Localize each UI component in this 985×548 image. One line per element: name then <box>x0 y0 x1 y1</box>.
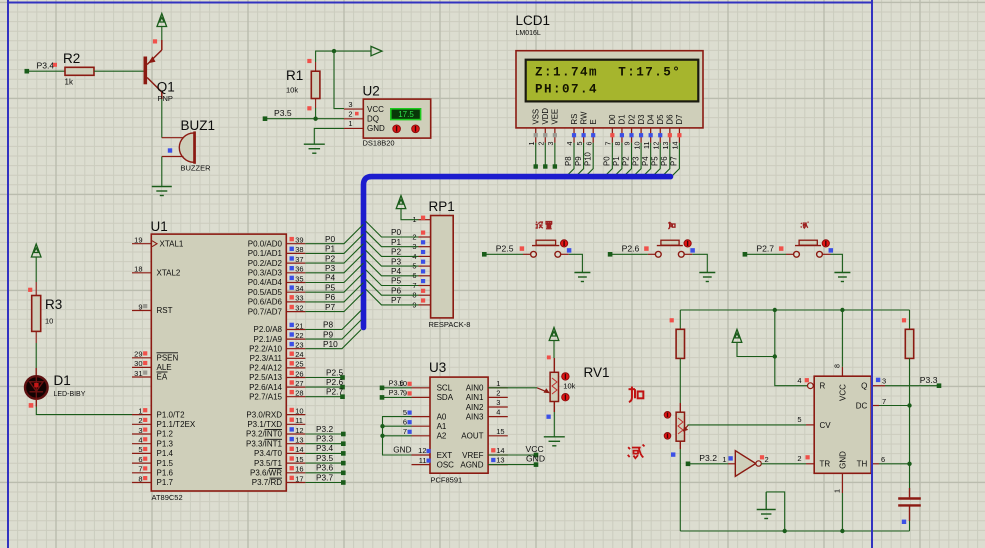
U3 pin 11 OSC <box>412 456 455 470</box>
junction <box>773 354 777 358</box>
svg-text:2: 2 <box>138 416 142 425</box>
svg-text:D6: D6 <box>666 115 675 125</box>
svg-text:37: 37 <box>295 255 303 264</box>
potentiometer RV1 <box>537 355 610 412</box>
wire P5 U1 to bus <box>305 273 363 292</box>
svg-text:VEE: VEE <box>551 109 560 125</box>
svg-text:P2.5: P2.5 <box>496 244 514 254</box>
svg-text:GND: GND <box>526 454 545 464</box>
wire power to Q1 emitter <box>161 27 163 41</box>
power VCC Q1 <box>157 14 167 27</box>
svg-text:39: 39 <box>295 236 303 245</box>
wire Q to P3.3 <box>885 385 937 387</box>
svg-text:A1: A1 <box>437 422 447 431</box>
svg-text:R1: R1 <box>286 68 303 83</box>
svg-text:P0.5/AD5: P0.5/AD5 <box>248 288 283 297</box>
svg-text:P2.1/A9: P2.1/A9 <box>254 335 283 344</box>
svg-text:ALE: ALE <box>157 363 172 372</box>
wire P2 U1 to bus <box>305 244 363 263</box>
U1 pin 21 P2.0/A8 <box>254 321 306 334</box>
wire P4 U1 to bus <box>305 263 363 282</box>
svg-text:P2.2/A10: P2.2/A10 <box>249 344 282 353</box>
power arrow right <box>371 46 382 55</box>
U1 pin 29 PSEN <box>132 350 151 359</box>
svg-text:P4: P4 <box>325 273 336 283</box>
RP1 pin 8 <box>412 289 430 300</box>
ground RV1 <box>544 437 565 446</box>
ground 555 bars <box>757 510 776 519</box>
svg-text:P3.7: P3.7 <box>389 388 404 397</box>
svg-text:RV1: RV1 <box>584 365 610 380</box>
ground 555 <box>765 492 767 510</box>
U3 pin 3 AIN2 <box>466 398 508 412</box>
U1 pin 1 P1.0/T2 <box>132 406 151 415</box>
U3 pin 5 A0 <box>403 408 447 422</box>
U3 pin 15 AOUT <box>461 427 508 441</box>
wire P2.6 to button <box>610 253 648 255</box>
svg-text:P9: P9 <box>323 329 334 339</box>
RP1 pin 3 <box>412 240 430 251</box>
svg-text:P2.7: P2.7 <box>326 387 343 397</box>
wire A0-EXT gnd tie <box>383 417 412 455</box>
LCD pin 6 E <box>583 119 598 177</box>
svg-text:22: 22 <box>295 331 303 340</box>
svg-text:13: 13 <box>295 436 303 445</box>
svg-text:Q1: Q1 <box>157 80 175 95</box>
svg-text:9: 9 <box>623 142 632 146</box>
svg-text:29: 29 <box>134 350 142 359</box>
svg-text:P3.4/T0: P3.4/T0 <box>254 449 283 458</box>
wire 555 GND down <box>841 493 843 531</box>
U1 pin 11 P3.1/TXD <box>247 416 305 429</box>
svg-text:P3.3: P3.3 <box>316 434 333 444</box>
bus P0..P10 <box>364 177 671 328</box>
U3 pin 1 AIN0 <box>466 379 508 393</box>
svg-text:1: 1 <box>496 379 500 388</box>
svg-text:8: 8 <box>138 474 142 483</box>
U1 pin 34 P0.5/AD5 <box>248 284 306 297</box>
wire P3 RP1 to bus <box>366 250 419 266</box>
svg-text:P2: P2 <box>325 253 336 263</box>
svg-text:21: 21 <box>295 321 303 330</box>
svg-text:4: 4 <box>797 376 801 385</box>
svg-text:P1.4: P1.4 <box>157 449 174 458</box>
U1 pin 27 P2.6/A14 <box>249 379 305 392</box>
U1 pin 9 RST <box>132 302 151 311</box>
svg-text:AIN2: AIN2 <box>466 403 484 412</box>
LCD pin 4 RS <box>564 114 579 177</box>
wire P2.6 stub <box>305 386 340 388</box>
U1 pin 13 P3.3/INT1 <box>246 436 305 449</box>
LCD pin 11 D4 <box>641 114 656 177</box>
LCD pin 13 D6 <box>660 115 675 177</box>
svg-text:15: 15 <box>496 427 504 436</box>
svg-text:P3.4: P3.4 <box>37 60 55 70</box>
wire P2.7 to button <box>745 253 786 255</box>
junction <box>380 424 384 428</box>
net P3.3 <box>920 375 942 388</box>
U3 pin 7 A2 <box>403 427 447 441</box>
svg-text:D7: D7 <box>675 115 684 125</box>
wire button to ground <box>692 254 707 272</box>
svg-text:RS: RS <box>570 114 579 125</box>
svg-text:3: 3 <box>882 377 886 386</box>
wire to 555 R <box>775 310 808 386</box>
IC 555 box <box>814 376 871 473</box>
svg-text:28: 28 <box>295 389 303 398</box>
svg-text:AOUT: AOUT <box>461 432 483 441</box>
svg-text:34: 34 <box>295 284 303 293</box>
wire P2 RP1 to bus <box>366 241 419 257</box>
555 pin 7 DC <box>871 397 886 406</box>
svg-text:D0: D0 <box>608 114 617 125</box>
svg-text:R3: R3 <box>45 297 62 312</box>
svg-text:23: 23 <box>295 341 303 350</box>
svg-text:P1.1/T2EX: P1.1/T2EX <box>157 420 196 429</box>
RP1 pin 7 <box>412 279 430 290</box>
wire P7 U1 to bus <box>305 292 363 311</box>
svg-text:P3.5: P3.5 <box>316 453 333 463</box>
svg-text:3: 3 <box>348 100 352 109</box>
svg-text:P3.6/WR: P3.6/WR <box>250 469 282 478</box>
svg-text:AIN3: AIN3 <box>466 412 484 421</box>
svg-text:P3: P3 <box>391 256 402 266</box>
svg-text:P1.0/T2: P1.0/T2 <box>157 410 186 419</box>
net P3.2 <box>686 453 717 466</box>
svg-text:GND: GND <box>367 124 385 133</box>
wire U2 GND down <box>314 128 344 144</box>
node P3.4 <box>25 60 58 73</box>
wire P4 RP1 to bus <box>366 260 419 276</box>
wire R1 bottom <box>315 108 317 119</box>
svg-text:P5: P5 <box>650 156 659 166</box>
svg-text:P1.2: P1.2 <box>157 430 174 439</box>
wire left rail bottom <box>679 449 681 531</box>
svg-text:D3: D3 <box>637 115 646 125</box>
marker <box>671 452 675 456</box>
wire NOT out to TR <box>761 463 806 465</box>
svg-text:P2: P2 <box>622 156 631 166</box>
resistor pack RP1 <box>429 199 471 329</box>
svg-text:P1: P1 <box>325 244 336 254</box>
wire P3.5 stub <box>305 462 341 464</box>
power VCC 555 <box>732 329 742 342</box>
svg-text:P2.4/A12: P2.4/A12 <box>249 364 282 373</box>
svg-text:1: 1 <box>348 119 352 128</box>
svg-text:15: 15 <box>295 455 303 464</box>
net VCC <box>491 444 544 457</box>
LCD LM016L body <box>516 51 703 128</box>
svg-text:4: 4 <box>138 436 142 445</box>
svg-text:T:17.5°: T:17.5° <box>618 66 681 80</box>
potentiometer left <box>664 403 688 449</box>
wire Q1 collector to BUZ1 <box>161 99 163 138</box>
U1 pin 22 P2.1/A9 <box>254 331 306 344</box>
RP1 pin 2 <box>412 231 430 242</box>
svg-text:EA: EA <box>157 373 168 382</box>
svg-text:P3.3: P3.3 <box>920 375 938 385</box>
resistor left <box>670 318 685 358</box>
ground BUZ1 <box>152 187 172 196</box>
svg-text:2: 2 <box>797 454 801 463</box>
wire P6 RP1 to bus <box>366 279 419 295</box>
svg-text:6: 6 <box>881 455 885 464</box>
svg-text:38: 38 <box>295 245 303 254</box>
svg-text:VDD: VDD <box>541 108 550 125</box>
svg-text:P3.2: P3.2 <box>316 424 333 434</box>
svg-text:16: 16 <box>295 465 303 474</box>
svg-text:12: 12 <box>418 446 426 455</box>
svg-text:SCL: SCL <box>437 384 453 393</box>
svg-text:D5: D5 <box>656 114 665 125</box>
svg-text:E: E <box>589 119 598 124</box>
svg-text:17.5: 17.5 <box>398 110 414 119</box>
svg-text:P3.5: P3.5 <box>274 108 292 118</box>
svg-text:DS18B20: DS18B20 <box>363 138 395 147</box>
svg-text:VCC: VCC <box>839 384 848 401</box>
svg-text:11: 11 <box>419 456 427 465</box>
RP1 pin 5 <box>412 260 430 271</box>
U1 pin 39 P0.0/AD0 <box>248 236 306 249</box>
svg-text:30: 30 <box>134 359 142 368</box>
svg-text:5: 5 <box>138 445 142 454</box>
U3 pin 10 SCL <box>399 379 453 393</box>
svg-text:P2.6/A14: P2.6/A14 <box>249 383 282 392</box>
wire BUZ1 to ground <box>161 157 163 187</box>
svg-text:P0.3/AD3: P0.3/AD3 <box>248 269 283 278</box>
svg-text:14: 14 <box>496 446 504 455</box>
node P2.6 <box>340 385 345 390</box>
svg-text:32: 32 <box>295 303 303 312</box>
svg-text:P6: P6 <box>391 285 402 295</box>
wire P0 RP1 to bus <box>366 221 419 237</box>
svg-text:P10: P10 <box>323 339 338 349</box>
U3 pin 13 AGND <box>460 456 507 470</box>
LCD pin 5 RW <box>574 111 589 177</box>
node P3.5 <box>263 108 292 121</box>
svg-text:TR: TR <box>820 460 831 469</box>
svg-text:P0.0/AD0: P0.0/AD0 <box>248 239 283 248</box>
LCD pin 2 VDD <box>536 108 550 169</box>
resistor R3 <box>32 296 63 332</box>
ground ADD <box>699 273 715 282</box>
U1 pin 25 P2.4/A12 <box>249 360 305 373</box>
wire P3 U1 to bus <box>305 254 363 273</box>
U1 pin 17 P3.7/RD <box>252 474 306 487</box>
U1 pin 8 P1.7 <box>132 474 151 483</box>
svg-text:P3.7: P3.7 <box>316 472 333 482</box>
svg-text:3: 3 <box>546 142 555 146</box>
svg-text:18: 18 <box>134 265 142 274</box>
svg-text:AT89C52: AT89C52 <box>152 493 183 502</box>
power VCC RP1 <box>396 196 406 209</box>
wire R1 top rail <box>316 51 371 62</box>
svg-text:P0.2/AD2: P0.2/AD2 <box>248 259 283 268</box>
svg-text:VREF: VREF <box>462 451 483 460</box>
svg-text:P4: P4 <box>641 156 650 166</box>
svg-text:P1.5: P1.5 <box>157 459 174 468</box>
svg-text:33: 33 <box>295 294 303 303</box>
svg-text:P0: P0 <box>391 227 402 237</box>
U1 pin 10 P3.0/RXD <box>246 406 305 419</box>
wire R3 to D1 <box>35 343 37 368</box>
svg-text:1k: 1k <box>65 78 74 87</box>
svg-text:GND: GND <box>839 451 848 469</box>
svg-text:8: 8 <box>613 142 622 146</box>
U1 pin 18 XTAL2 <box>132 265 151 274</box>
RP1 pin 9 <box>412 298 430 309</box>
LCD pin 14 D7 <box>670 115 685 177</box>
svg-text:GND: GND <box>393 445 411 454</box>
net GND <box>491 454 545 467</box>
wire P8 U1 to bus <box>305 310 361 329</box>
wire P10 U1 to bus <box>305 330 361 349</box>
LCD pin 8 D1 <box>612 115 627 177</box>
svg-text:P3.0/RXD: P3.0/RXD <box>246 410 282 419</box>
U1 pin 16 P3.6/WR <box>250 465 305 478</box>
svg-text:12: 12 <box>295 426 303 435</box>
svg-text:XTAL1: XTAL1 <box>160 239 184 248</box>
U1 pin 3 P1.2 <box>132 426 151 435</box>
U1 pin 24 P2.3/A11 <box>250 350 306 363</box>
svg-text:P0.7/AD7: P0.7/AD7 <box>248 307 283 316</box>
svg-text:P3.4: P3.4 <box>316 443 333 453</box>
svg-text:31: 31 <box>134 369 142 378</box>
svg-text:LM016L: LM016L <box>516 30 541 37</box>
LCD pin 7 D0 <box>603 114 618 177</box>
wire D1 to U1 P1.0 <box>36 407 132 415</box>
wire P2.7 stub <box>305 396 340 398</box>
wire P7 RP1 to bus <box>366 289 419 305</box>
junction <box>332 49 336 53</box>
svg-text:P3.5/T1: P3.5/T1 <box>254 459 283 468</box>
svg-text:U3: U3 <box>429 360 446 375</box>
svg-text:P3.3/INT1: P3.3/INT1 <box>246 439 283 448</box>
U3 pin 6 A1 <box>403 417 447 431</box>
U1 pin 37 P0.2/AD2 <box>248 255 306 268</box>
svg-text:35: 35 <box>295 274 303 283</box>
svg-text:BUZZER: BUZZER <box>181 164 212 173</box>
svg-text:5: 5 <box>797 415 801 424</box>
svg-text:DQ: DQ <box>367 115 379 124</box>
svg-text:P1: P1 <box>391 237 402 247</box>
svg-text:OSC: OSC <box>437 460 455 469</box>
svg-text:3: 3 <box>496 398 500 407</box>
svg-text:P3.2/INT0: P3.2/INT0 <box>246 430 283 439</box>
svg-text:7: 7 <box>882 397 886 406</box>
wire cap to bottom rail <box>909 521 911 531</box>
wire power to RV1 <box>553 341 555 359</box>
wire P3.4 stub <box>305 452 341 454</box>
svg-text:25: 25 <box>295 360 303 369</box>
svg-text:9: 9 <box>138 302 142 311</box>
svg-text:12: 12 <box>651 142 660 150</box>
wire P3.7 stub <box>305 482 341 484</box>
U1 pin 33 P0.6/AD6 <box>248 294 306 307</box>
svg-text:11: 11 <box>642 142 651 149</box>
U1 pin 5 P1.4 <box>132 445 151 454</box>
svg-text:1: 1 <box>722 455 726 464</box>
svg-text:5: 5 <box>575 142 584 146</box>
wire P6 U1 to bus <box>305 283 363 302</box>
LCD pin 3 VEE <box>546 109 560 169</box>
wire AIN0 to RV1 wiper <box>488 387 537 389</box>
buzzer BUZ1 <box>162 118 215 173</box>
svg-text:6: 6 <box>584 142 593 146</box>
svg-text:AGND: AGND <box>460 460 483 469</box>
svg-text:2: 2 <box>765 455 769 464</box>
U1 pin 12 P3.2/INT0 <box>246 426 305 439</box>
svg-text:7: 7 <box>138 465 142 474</box>
wire P3.7 to SDA <box>382 396 412 398</box>
svg-text:10k: 10k <box>286 86 298 95</box>
capacitor C <box>898 488 921 524</box>
svg-text:U2: U2 <box>363 84 380 99</box>
svg-text:P2.7: P2.7 <box>756 244 774 254</box>
power VCC D1 branch <box>31 244 41 257</box>
U1 pin 19 XTAL1 <box>132 236 151 245</box>
wire left rail top <box>679 310 681 329</box>
node P2.7 <box>743 244 784 257</box>
svg-text:P3.6: P3.6 <box>389 378 404 387</box>
power VCC RV1 <box>549 328 559 341</box>
IC U2 DS18B20 <box>344 84 431 148</box>
label she-zhi <box>536 222 543 229</box>
svg-text:P7: P7 <box>325 302 336 312</box>
svg-text:AIN1: AIN1 <box>466 393 484 402</box>
wire button to ground <box>569 254 583 272</box>
wire RV1 to ground <box>553 412 555 437</box>
svg-text:D4: D4 <box>646 114 655 125</box>
LCD pin 12 D5 <box>650 114 665 177</box>
svg-text:P3: P3 <box>325 263 336 273</box>
svg-text:P1.7: P1.7 <box>157 478 174 487</box>
svg-text:P1: P1 <box>612 156 621 166</box>
svg-text:2: 2 <box>348 109 352 118</box>
svg-text:P6: P6 <box>325 292 336 302</box>
svg-text:6: 6 <box>403 417 407 426</box>
svg-text:P0: P0 <box>325 234 336 244</box>
wire P5 RP1 to bus <box>366 270 419 286</box>
svg-text:P2.0/A8: P2.0/A8 <box>254 325 283 334</box>
resistor R1 <box>286 59 320 110</box>
wire RP1 pin1 to power <box>401 209 419 220</box>
555 pin 1 GND <box>833 473 843 493</box>
node P3.5 <box>341 461 346 466</box>
555 pin 4 R <box>797 376 813 389</box>
U3 pin 4 AIN3 <box>466 408 508 422</box>
U1 pin 23 P2.2/A10 <box>249 341 305 354</box>
svg-text:27: 27 <box>295 379 303 388</box>
svg-text:P2.5/A13: P2.5/A13 <box>249 373 282 382</box>
label jian <box>801 222 809 228</box>
svg-text:17: 17 <box>295 474 303 483</box>
svg-text:P3.7/RD: P3.7/RD <box>252 478 282 487</box>
svg-text:10: 10 <box>632 142 641 150</box>
node P3.4 <box>341 451 346 456</box>
555 pin 2 TR <box>797 454 814 464</box>
svg-text:R: R <box>820 382 826 391</box>
IC U3 PCF8591 <box>429 360 488 485</box>
U3 pin 2 AIN1 <box>466 388 508 402</box>
node P2.5 <box>340 375 345 380</box>
junction <box>313 117 317 121</box>
svg-text:P0.6/AD6: P0.6/AD6 <box>248 298 283 307</box>
svg-text:Q: Q <box>861 382 867 391</box>
label jia (add) <box>629 387 644 403</box>
svg-text:2: 2 <box>536 142 545 146</box>
wire P1 U1 to bus <box>305 234 363 253</box>
